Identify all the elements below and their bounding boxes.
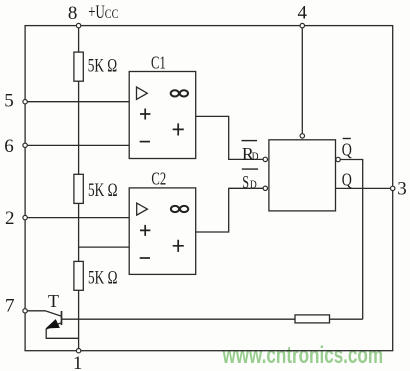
wire: pin 4 down to flip-flop top input [301,26,303,134]
flip-flop U1 box [269,140,336,211]
pin 7 terminal circle [23,309,27,313]
pin 6 terminal circle [23,143,27,147]
resistor R1 5K body [74,52,83,81]
svg-text:5K Ω: 5K Ω [88,55,118,76]
transistor Q1 base bar [61,311,63,325]
flip-flop RD input label with overbar [242,141,259,165]
svg-text:S: S [242,172,249,192]
comparator C2 plus input mark [140,225,150,236]
svg-text:C2: C2 [151,169,166,189]
flip-flop top input circle [300,134,304,138]
resistor R2 5K body [74,174,83,203]
svg-text:3: 3 [397,179,407,200]
svg-text:T: T [48,291,59,311]
wire: Qbar feedback to discharge resistor [340,160,362,320]
pin 8 terminal circle [76,23,80,27]
resistor R4 discharge body [295,315,330,323]
op-amp comparator C2 box [129,188,196,275]
wire: C2 output to SD input [196,188,263,232]
resistor R3 5K body [74,261,83,290]
svg-text:CC: CC [105,7,119,21]
comparator C1 big plus mark [173,123,184,135]
svg-text:5K Ω: 5K Ω [88,180,118,201]
svg-text:Q: Q [342,140,352,160]
svg-text:8: 8 [68,3,78,24]
transistor Q1 base wire from pin 7 [27,311,61,317]
flip-flop RD input circle [263,157,267,161]
wire: pin 2 to C2 + input [25,217,129,219]
wire: emitter lead to pin 1 node [46,329,78,339]
svg-text:1: 1 [73,353,83,371]
comparator C2 triangle symbol [137,203,148,215]
wire: resistor to Qbar feedback corner [330,318,363,320]
wire: pin 5 to C1 + input [25,101,129,103]
wire: C1 output to RD input [196,116,263,159]
svg-text:C1: C1 [151,52,166,72]
comparator C2 infinity gain symbol [171,206,188,212]
flip-flop Qbar output circle [336,157,340,161]
flip-flop SD input label with overbar [242,169,258,192]
comparator C1 minus input mark [140,141,150,143]
wire: node B to C2 - input [79,246,130,248]
transistor Q1 emitter line [46,323,61,329]
svg-text:5: 5 [4,91,14,112]
wire: Q output to pin 3 [336,187,393,189]
pin 3 terminal circle [391,186,395,190]
svg-text:D: D [250,179,257,191]
wire: R3 down to pin 1 node [78,290,80,350]
svg-text:Q: Q [342,170,352,190]
wire: R2 to R3 (node B) [78,203,80,261]
svg-text:5K Ω: 5K Ω [88,267,118,288]
op-amp comparator C1 box [129,72,196,159]
svg-text:7: 7 [5,296,15,317]
svg-text:4: 4 [297,2,307,23]
pin 4 terminal circle [300,23,304,27]
wire: collector line from transistor to resistor [62,318,296,320]
wire: R1 to R2 (node A) [78,81,80,174]
wire: Ucc rail drop from pin 8 to divider [78,26,80,52]
comparator C2 minus input mark [140,257,150,259]
svg-text:www.cntronics.com: www.cntronics.com [222,342,383,369]
svg-text:6: 6 [4,136,14,157]
flip-flop Qbar output label with overbar [342,139,352,160]
flip-flop SD input circle [263,186,267,190]
svg-text:2: 2 [5,208,15,229]
wire: IC package border rectangle [25,26,393,351]
comparator C2 big plus mark [173,240,184,252]
transistor Q1 emitter arrowhead [47,320,59,328]
svg-text:D: D [252,151,259,163]
pin 1 terminal circle [76,349,80,353]
pin 2 terminal circle [23,215,27,219]
wire: pin 6 to C1 - input [25,144,129,146]
comparator C1 infinity gain symbol [171,90,188,96]
pin 5 terminal circle [23,100,27,104]
comparator C1 triangle symbol [137,87,148,99]
comparator C1 plus input mark [140,109,150,120]
svg-text:+U: +U [88,2,105,23]
